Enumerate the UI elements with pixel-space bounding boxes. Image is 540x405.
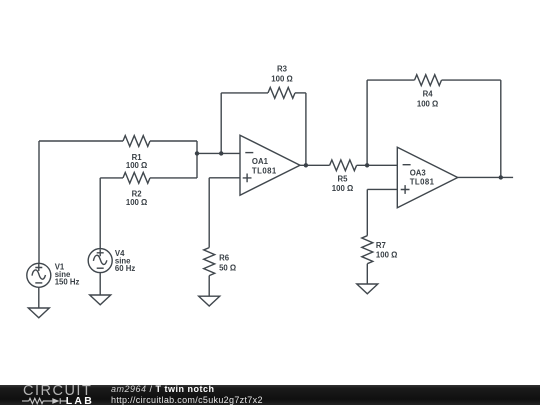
wire R2 right lead — [150, 177, 197, 179]
node at R5 / R4 / OA3 inverting junction — [365, 163, 369, 167]
ground below V1 — [28, 308, 49, 318]
wire OA1 output to R5 — [300, 164, 330, 166]
wire R3 top left — [221, 92, 268, 94]
wire R4 left vertical riser — [366, 80, 368, 165]
wire R3 right vertical drop to OA1 output — [305, 93, 307, 165]
wire R5 right to OA3 inverting input — [357, 164, 398, 166]
op-amp OA3 — [397, 147, 457, 207]
svg-text:R3: R3 — [277, 65, 288, 74]
wire OA3 non-inverting input — [367, 188, 397, 190]
op-amp OA1 minus sign — [245, 152, 253, 154]
node at OA3 output / R4 junction — [499, 175, 503, 179]
node at R3 feedback tap on inverting input — [219, 151, 223, 155]
op-amp OA3 minus sign — [403, 164, 411, 166]
wire OA1 inverting input — [197, 152, 240, 154]
resistor R3 — [268, 88, 295, 99]
svg-text:100 Ω: 100 Ω — [376, 251, 397, 260]
svg-text:R6: R6 — [219, 254, 230, 263]
wire V4 bottom lead — [99, 273, 101, 295]
svg-text:R4: R4 — [423, 90, 434, 99]
node at R1/R2 junction to OA1 inverting input — [195, 151, 199, 155]
op-amp OA3 plus sign — [401, 185, 410, 194]
svg-text:60 Hz: 60 Hz — [115, 264, 135, 273]
svg-text:TL081: TL081 — [410, 177, 435, 186]
svg-text:100 Ω: 100 Ω — [126, 161, 147, 170]
wire vertical from OA3 plus down to R7 — [366, 189, 368, 235]
CircuitLab logo wordmark LAB — [66, 395, 94, 405]
footer bar — [0, 385, 540, 405]
wire OA3 output — [458, 176, 513, 178]
svg-text:TL081: TL081 — [252, 166, 277, 175]
resistor R4 — [415, 75, 442, 86]
resistor R2 — [123, 173, 150, 184]
wire vertical joining R1 and R2 right ends — [196, 141, 198, 178]
wire R4 right vertical drop to OA3 output — [500, 80, 502, 177]
wire R1 right lead — [150, 140, 197, 142]
wire R7 bottom lead — [366, 264, 368, 284]
voltage source V1 sine wave — [32, 270, 46, 279]
svg-text:R5: R5 — [338, 175, 349, 184]
svg-text:R7: R7 — [376, 241, 386, 250]
CircuitLab logo schematic glyph (resistor + diode) — [22, 397, 67, 405]
wire R2 left lead — [100, 177, 123, 179]
CircuitLab logo wordmark CIRCUIT — [23, 385, 92, 397]
voltage source V4 sine wave — [93, 255, 107, 264]
footer title and url text — [111, 384, 263, 405]
voltage source V1 minus sign — [35, 282, 42, 284]
resistor R6 — [204, 248, 215, 276]
svg-text:100 Ω: 100 Ω — [271, 74, 292, 83]
svg-text:100 Ω: 100 Ω — [332, 184, 353, 193]
svg-text:100 Ω: 100 Ω — [126, 198, 147, 207]
voltage source V4 circle — [88, 249, 112, 273]
wire R6 bottom lead — [208, 276, 210, 297]
wire R1 left lead — [39, 140, 123, 142]
wire vertical from OA1 plus down to R6 — [208, 178, 210, 248]
voltage source V4 plus sign — [97, 249, 104, 256]
ground below V4 — [90, 295, 111, 305]
resistor R1 — [123, 136, 150, 147]
wire OA1 non-inverting input — [209, 177, 240, 179]
wire R4 top left — [367, 79, 414, 81]
wire V1 bottom lead — [38, 287, 40, 308]
svg-text:OA1: OA1 — [252, 157, 269, 166]
svg-text:100 Ω: 100 Ω — [417, 99, 438, 108]
ground below R6 — [199, 296, 220, 306]
wire V1 top vertical — [38, 141, 40, 263]
wire R3 left vertical riser — [220, 93, 222, 153]
voltage source V4 minus sign — [97, 267, 104, 269]
resistor R7 — [362, 236, 373, 264]
svg-text:OA3: OA3 — [410, 169, 427, 178]
ground below R7 — [357, 284, 378, 294]
wire V4 top vertical — [99, 178, 101, 249]
node at OA1 output / R3 junction — [304, 163, 308, 167]
svg-text:50 Ω: 50 Ω — [219, 263, 236, 272]
op-amp OA1 — [240, 135, 300, 195]
voltage source V1 plus sign — [35, 264, 42, 271]
wire R4 top right — [442, 79, 501, 81]
resistor R5 — [330, 160, 357, 171]
svg-text:150 Hz: 150 Hz — [55, 278, 80, 287]
wire R3 right lead — [295, 92, 306, 94]
voltage source V1 circle — [27, 263, 51, 287]
op-amp OA1 plus sign — [243, 174, 252, 183]
